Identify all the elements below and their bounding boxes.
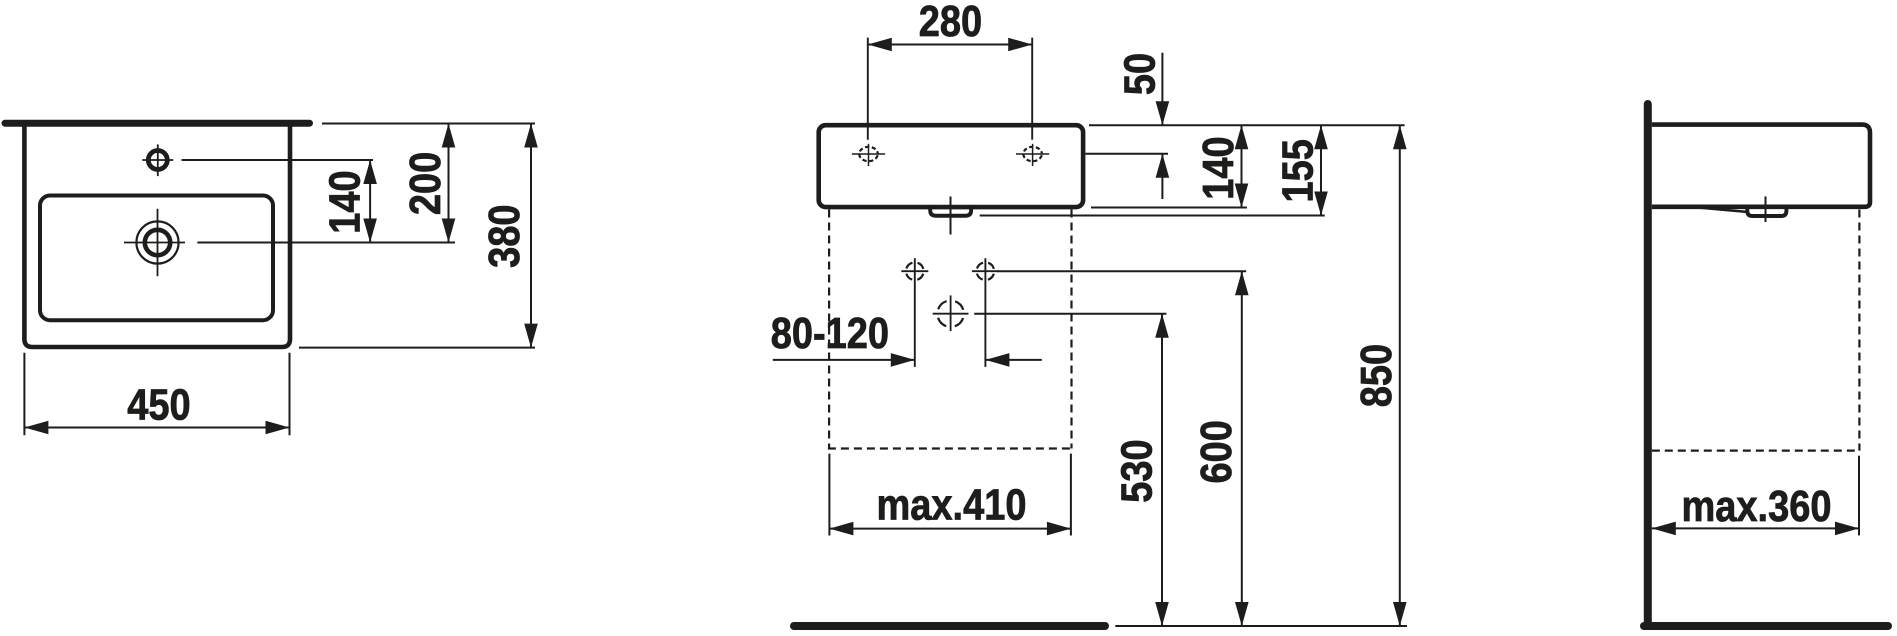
svg-text:850: 850: [1351, 344, 1400, 407]
svg-text:155: 155: [1273, 139, 1322, 202]
svg-text:50: 50: [1115, 53, 1164, 95]
svg-text:530: 530: [1112, 439, 1161, 502]
svg-text:140: 140: [320, 170, 369, 233]
svg-text:600: 600: [1192, 420, 1241, 483]
svg-text:380: 380: [480, 204, 529, 267]
svg-text:max.410: max.410: [876, 480, 1026, 529]
svg-text:max.360: max.360: [1681, 481, 1831, 530]
svg-text:140: 140: [1194, 136, 1243, 199]
svg-text:280: 280: [919, 0, 982, 46]
svg-text:200: 200: [401, 152, 450, 215]
svg-text:80-120: 80-120: [771, 309, 889, 358]
svg-text:450: 450: [127, 380, 190, 429]
